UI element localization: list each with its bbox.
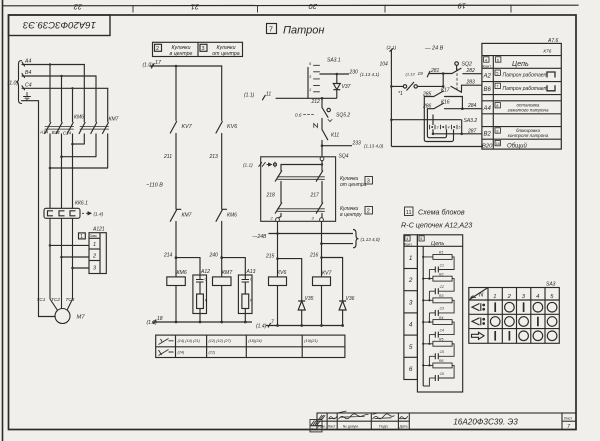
svg-text:22: 22: [73, 2, 83, 11]
svg-text:5: 5: [420, 237, 422, 241]
wire 233: [322, 145, 352, 147]
svg-text:Конт.: Конт.: [404, 242, 412, 246]
svg-text:212: 212: [311, 99, 321, 105]
svg-text:КМ7: КМ7: [182, 213, 192, 219]
resistor R2: [423, 276, 454, 291]
svg-text:К16: К16: [441, 100, 450, 106]
svg-text:2: 2: [408, 277, 413, 284]
row icons: [159, 339, 174, 356]
svg-text:Конт.: Конт.: [483, 63, 492, 68]
resistor R3: [423, 298, 454, 313]
svg-text:233: 233: [352, 141, 362, 147]
svg-text:4: 4: [409, 322, 413, 329]
svg-text:214: 214: [163, 253, 173, 259]
wire from SQ4 terminal 3 down: [321, 222, 323, 277]
svg-text:Патрон работает: Патрон работает: [503, 86, 548, 92]
svg-text:(1.0): (1.0): [143, 62, 154, 68]
svg-text:в центре: в центре: [170, 51, 193, 57]
selector SA3.2 common: [391, 115, 461, 126]
svg-text:R2: R2: [439, 272, 443, 276]
svg-text:КМ6: КМ6: [227, 213, 237, 219]
taps to connector A121: [50, 245, 89, 268]
capacitor C4: [429, 332, 438, 338]
svg-text:Х76: Х76: [542, 49, 552, 54]
svg-text:Кулачки: Кулачки: [216, 45, 235, 51]
capacitor C5: [429, 353, 438, 359]
resistor R5: [423, 341, 454, 356]
brace (1.0) power feed: [16, 61, 22, 104]
svg-text:17: 17: [155, 60, 162, 66]
svg-text:Общий: Общий: [507, 143, 527, 150]
svg-text:285: 285: [422, 91, 432, 97]
svg-text:19: 19: [418, 71, 424, 76]
svg-text:C2: C2: [440, 285, 444, 289]
coil KM6: [167, 258, 186, 322]
svg-text:В6: В6: [484, 87, 492, 93]
svg-text:3: 3: [409, 299, 413, 306]
wire drop col2 from B4: [61, 76, 63, 122]
legend box 3: Кулачки от центра: [200, 44, 207, 51]
switch SQ2 upper contact: [452, 62, 461, 90]
svg-text:(1.2): (1.2): [147, 320, 158, 326]
capacitor C1: [429, 267, 438, 273]
svg-text:(1.1): (1.1): [243, 163, 253, 168]
svg-text:В2: В2: [484, 131, 492, 137]
wire 283: [462, 84, 482, 86]
svg-text:4: 4: [406, 237, 408, 241]
svg-text:(1.0): (1.0): [8, 80, 19, 86]
resistor R1: [423, 255, 454, 270]
wire drop col1 from A4: [49, 65, 51, 122]
SQ4 internal common wiring: [281, 161, 322, 171]
svg-text:А13: А13: [246, 269, 256, 275]
svg-text:К17: К17: [441, 87, 450, 93]
cam switch SA3.1: [308, 65, 320, 98]
svg-text:217: 217: [310, 193, 320, 199]
svg-text:(2.1): (2.1): [387, 45, 397, 51]
svg-text:240: 240: [209, 253, 219, 259]
SQ4 bottom terminals: [276, 218, 280, 222]
svg-text:контроля патрона: контроля патрона: [508, 133, 549, 138]
RC table frame: [404, 235, 463, 392]
SQ4 contact: cams from centre (upper pair): [275, 165, 324, 203]
diode V35 branch: [278, 259, 306, 326]
svg-text:— 24 В: — 24 В: [424, 46, 444, 52]
archive boxes left of title block: [310, 420, 322, 432]
reverse cross wires joining KM7 outputs to columns: [50, 144, 108, 168]
legend box 2: Кулачки в центре: [153, 42, 243, 56]
wire 281 with terminal: [427, 71, 452, 77]
svg-text:(1.13 4,0): (1.13 4,0): [361, 237, 381, 242]
RC suppressor block A12: [176, 258, 207, 322]
svg-text:2: 2: [156, 46, 159, 52]
node dot wire 233: [321, 144, 324, 147]
svg-text:286: 286: [422, 103, 432, 109]
diode V36 branch: [322, 258, 347, 326]
svg-text:V37: V37: [342, 84, 351, 90]
signature scribbles: [319, 411, 408, 420]
thermal overload KK6: [44, 208, 80, 308]
mechanical tie KM6: [45, 127, 74, 130]
svg-text:20: 20: [308, 2, 318, 11]
svg-text:(1.13: (1.13: [406, 71, 416, 76]
wire 230: [320, 73, 350, 75]
svg-text:(12) (12) (27): (12) (12) (27): [209, 339, 232, 343]
svg-text:4: 4: [536, 294, 539, 300]
diode V37: [322, 74, 340, 98]
svg-text:213: 213: [209, 154, 219, 160]
svg-text:от центра: от центра: [212, 51, 240, 57]
svg-text:C1: C1: [440, 263, 444, 267]
svg-text:R3: R3: [439, 294, 443, 298]
svg-text:18: 18: [157, 316, 163, 322]
bus 18: [152, 320, 252, 325]
svg-text:С14: С14: [63, 131, 72, 136]
svg-text:R: R: [205, 299, 208, 303]
node 216: [320, 256, 323, 259]
svg-text:А12: А12: [200, 269, 210, 275]
limit switch unit SQ4: [261, 157, 336, 222]
svg-text:КV7: КV7: [322, 271, 333, 277]
svg-text:(18)(24): (18)(24): [248, 339, 262, 343]
node dot on wire 230: [336, 73, 339, 76]
svg-text:Кулачки: Кулачки: [171, 45, 190, 51]
RC suppressor block A13: [222, 258, 252, 322]
svg-text:KV6: KV6: [227, 124, 237, 130]
svg-text:В4: В4: [25, 70, 31, 76]
svg-text:(1.4): (1.4): [94, 212, 104, 217]
capacitor C2: [429, 288, 438, 294]
sheet outer edge left: [2, 0, 4, 441]
svg-text:С: С: [205, 278, 208, 282]
wire drop col4 from A4: [83, 65, 85, 122]
svg-text:SQ2: SQ2: [462, 61, 472, 67]
contact K11: [322, 130, 328, 157]
sheet outer edge top: [3, 4, 579, 7]
svg-text:6: 6: [409, 366, 413, 373]
svg-text:R: R: [250, 299, 253, 303]
resistor R4: [423, 320, 454, 335]
svg-text:R-C цепочек А12,А23: R-C цепочек А12,А23: [401, 221, 472, 230]
svg-text:N: N: [479, 293, 484, 299]
svg-text:Зам.: Зам.: [90, 234, 98, 238]
svg-text:211: 211: [163, 154, 172, 160]
svg-text:КМ7: КМ7: [109, 117, 119, 123]
motor M7: [50, 299, 73, 324]
svg-text:KV7: KV7: [182, 124, 193, 130]
SQ4 contact: cams to centre (lower pair): [275, 203, 324, 218]
wire C2 to next row: [428, 291, 430, 300]
wire C5 to next row: [428, 356, 430, 365]
row 3 icon + states: [472, 331, 557, 341]
svg-text:(1.13 4,0): (1.13 4,0): [364, 144, 384, 149]
mechanical tie KM7: [80, 127, 109, 130]
svg-text:7: 7: [271, 319, 274, 325]
svg-text:284: 284: [467, 103, 477, 109]
svg-text:А7.6: А7.6: [547, 38, 559, 44]
svg-text:282: 282: [466, 68, 476, 74]
svg-text:V36: V36: [346, 296, 355, 302]
SQ4 actuator arrow: [259, 162, 277, 167]
svg-text:4: 4: [448, 125, 450, 129]
svg-text:R4: R4: [439, 316, 443, 320]
svg-text:С: С: [250, 278, 253, 282]
KV6 contact branch: [216, 66, 222, 209]
stamp box with inverted document number: [9, 15, 111, 36]
link 281 to lower contact: [442, 74, 444, 87]
svg-text:283: 283: [466, 80, 476, 86]
svg-text:Схема блоков: Схема блоков: [418, 208, 465, 217]
svg-text:C6: C6: [440, 372, 444, 376]
wire C1 to next row: [428, 270, 430, 279]
wire 17: [150, 64, 222, 69]
node 215: [276, 257, 279, 260]
svg-text:215: 215: [265, 254, 275, 260]
svg-text:V35: V35: [305, 296, 314, 302]
svg-text:SA3.1: SA3.1: [327, 58, 341, 64]
contact K16: [427, 103, 482, 109]
KM7 auxiliary NC contact: [170, 209, 181, 257]
svg-text:Патрон работает: Патрон работает: [503, 73, 548, 79]
svg-text:21: 21: [191, 2, 200, 11]
svg-text:R6: R6: [439, 359, 443, 363]
node dot wire11 end: [321, 97, 324, 100]
svg-text:1: 1: [493, 294, 496, 300]
svg-text:К11: К11: [331, 133, 339, 139]
wire C3 to next row: [428, 313, 430, 322]
wire drop col3 from C4: [72, 88, 74, 121]
svg-text:Лист: Лист: [328, 425, 336, 429]
KK6 trip arrow to (1.4): [82, 212, 91, 215]
svg-text:C5: C5: [440, 350, 444, 354]
-24V feed wires: [269, 230, 359, 248]
KV7 contact branch: [170, 66, 176, 209]
row 2 icon + states: [472, 317, 557, 327]
capacitor C6: [429, 375, 438, 381]
svg-text:(21): (21): [209, 351, 216, 355]
svg-text:104: 104: [380, 62, 389, 68]
contactor KM7 main contacts (3 poles): [79, 123, 108, 169]
svg-text:М7: М7: [77, 315, 86, 321]
SQ2 lower contact: [451, 85, 462, 92]
svg-text:зажатого патрона: зажатого патрона: [507, 108, 549, 113]
svg-text:287: 287: [467, 128, 477, 134]
svg-text:от центра: от центра: [340, 182, 367, 188]
svg-text:А4: А4: [24, 59, 31, 65]
svg-text:1: 1: [309, 87, 311, 92]
svg-text:R5: R5: [439, 338, 443, 342]
wire drop col5 from B4: [95, 76, 97, 122]
svg-text:5: 5: [409, 344, 413, 351]
SQ4 top terminal: [320, 157, 324, 161]
capacitor C3: [429, 310, 438, 316]
jumper branch *1: [391, 82, 443, 91]
svg-text:(24): (24): [178, 351, 185, 355]
svg-text:216: 216: [309, 253, 319, 259]
svg-text:1: 1: [93, 242, 96, 248]
svg-text:R1: R1: [439, 251, 443, 255]
svg-text:C4: C4: [440, 328, 444, 332]
svg-text:281: 281: [430, 68, 440, 74]
row 1 icon + states: [472, 302, 557, 312]
svg-text:А121: А121: [92, 227, 105, 233]
svg-text:3: 3: [367, 179, 370, 185]
svg-text:2: 2: [367, 209, 370, 215]
wire C4 to next row: [428, 335, 430, 344]
svg-text:5: 5: [459, 125, 461, 129]
svg-text:КМ6: КМ6: [74, 115, 84, 121]
svg-text:ТС3: ТС3: [66, 297, 75, 302]
wire drop col6 from C4: [107, 88, 109, 121]
connector A121: [79, 233, 107, 274]
svg-text:Цепь: Цепь: [512, 61, 529, 68]
svg-text:Подп.: Подп.: [379, 425, 389, 429]
svg-text:С4: С4: [25, 82, 32, 88]
wire 11: [263, 95, 323, 100]
main bus 104: [390, 49, 394, 147]
svg-text:0.6: 0.6: [295, 112, 302, 117]
wire phase C4: [22, 86, 108, 90]
KM6 auxiliary NC contact: [216, 209, 227, 257]
svg-text:ТС1: ТС1: [37, 297, 46, 302]
svg-text:КК6.1: КК6.1: [75, 201, 88, 207]
contactor KM6 main contacts (3 poles): [45, 123, 74, 209]
svg-text:В14: В14: [52, 130, 61, 135]
wire 287: [433, 133, 482, 135]
svg-text:(1.1): (1.1): [244, 93, 255, 99]
coil KM7: [213, 258, 232, 322]
svg-text:11: 11: [406, 210, 412, 216]
bus 7 (-24V return): [266, 323, 344, 328]
wire phase B4: [22, 74, 96, 78]
svg-text:10: 10: [496, 141, 501, 146]
heading box 7: Патрон: [267, 24, 277, 34]
svg-text:Лист: Лист: [564, 417, 573, 421]
svg-text:218: 218: [266, 193, 276, 199]
ground wire: [22, 101, 56, 317]
svg-text:КV6: КV6: [277, 270, 287, 276]
svg-text:~110 В: ~110 В: [146, 183, 163, 189]
ground symbol: [24, 93, 31, 100]
svg-text:SQ5.2: SQ5.2: [336, 113, 350, 119]
svg-text:А14: А14: [39, 129, 49, 134]
svg-text:А2: А2: [483, 74, 492, 80]
svg-text:3: 3: [202, 46, 205, 52]
wire phase A4: [22, 62, 84, 66]
svg-text:16А20Ф3С39.Э3: 16А20Ф3С39.Э3: [22, 19, 96, 30]
svg-text:16А20Ф3С39. Э3: 16А20Ф3С39. Э3: [453, 418, 518, 427]
wire from SQ4 terminal 2 down: [277, 222, 279, 277]
svg-text:в центру: в центру: [340, 212, 362, 218]
svg-text:(19)(21): (19)(21): [304, 339, 318, 343]
svg-text:Инв.: Инв.: [311, 428, 318, 432]
svg-text:*1: *1: [398, 91, 403, 97]
svg-text:7: 7: [269, 27, 273, 34]
wire 282: [462, 73, 482, 75]
svg-text:КМ6: КМ6: [177, 270, 187, 276]
common wire B20: [391, 146, 482, 148]
foot switch SQ5.2: [304, 98, 333, 129]
node 214: [175, 256, 178, 259]
svg-text:В20: В20: [482, 144, 493, 150]
svg-text:1: 1: [409, 255, 413, 262]
svg-text:Патрон: Патрон: [283, 25, 324, 37]
svg-text:C3: C3: [440, 307, 444, 311]
junction dots on phase lines: [49, 63, 74, 89]
svg-text:230: 230: [349, 70, 359, 76]
svg-text:11: 11: [266, 91, 271, 97]
svg-text:Дата: Дата: [400, 425, 408, 429]
svg-text:№ докум.: № докум.: [343, 425, 359, 429]
coil KV7: [313, 277, 331, 326]
ruler tick marks: [133, 5, 511, 12]
RC internal bus: [422, 246, 424, 386]
svg-text:КМ7: КМ7: [222, 270, 233, 276]
node 240: [220, 256, 223, 259]
svg-text:А4: А4: [483, 106, 492, 112]
svg-text:1: 1: [80, 234, 83, 240]
heading box 11: [405, 207, 414, 216]
svg-text:SА3: SА3: [546, 281, 556, 287]
coil KV6: [269, 277, 287, 326]
SA3.2 wiring loops: [424, 97, 461, 142]
node dot wire17/KV7: [175, 65, 178, 68]
svg-text:SQ4: SQ4: [339, 154, 349, 160]
svg-text:(1.4): (1.4): [256, 323, 267, 329]
svg-text:SА3.2: SА3.2: [464, 118, 478, 124]
contact K17: [424, 91, 462, 109]
svg-text:(1.13 4,1): (1.13 4,1): [360, 72, 380, 77]
resistor R6: [423, 363, 454, 378]
svg-text:ТС2: ТС2: [51, 297, 60, 302]
wire C6 to bus bottom: [423, 378, 429, 386]
svg-text:(14) (14) (21): (14) (14) (21): [178, 339, 201, 343]
svg-text:—24В: —24В: [252, 234, 268, 240]
svg-text:19: 19: [457, 2, 466, 11]
svg-text:3: 3: [437, 125, 439, 129]
svg-text:Цепь: Цепь: [431, 241, 444, 247]
SA3.2 position ticks: [430, 125, 458, 129]
